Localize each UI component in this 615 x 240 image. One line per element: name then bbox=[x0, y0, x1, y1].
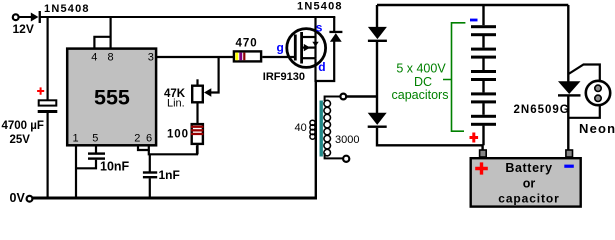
battery B1 body bbox=[471, 158, 581, 206]
svg-text:4700 µF: 4700 µF bbox=[2, 120, 44, 132]
wire pin 6 junction down and right to R3 bottom bbox=[149, 146, 197, 155]
bracket for capacitor bank (green) bbox=[443, 23, 465, 131]
svg-text:or: or bbox=[523, 177, 536, 191]
resistor R1 band yellow bbox=[235, 53, 238, 61]
Q1 body arrow right bbox=[304, 44, 310, 51]
diode D4 triangle bbox=[368, 113, 387, 125]
svg-text:g: g bbox=[277, 41, 284, 55]
wire Q1 source up to rail bbox=[314, 17, 316, 37]
neon electrode bottom bbox=[595, 95, 601, 101]
resistor R1 band violet bbox=[239, 53, 242, 61]
diode D3 triangle bbox=[368, 27, 387, 39]
svg-text:1N5408: 1N5408 bbox=[297, 1, 343, 13]
wire drain junction down to transformer primary bbox=[315, 81, 317, 198]
wire C6-C7 bbox=[482, 81, 484, 93]
svg-text:2: 2 bbox=[134, 132, 140, 144]
capacitor C8 plates bbox=[471, 115, 496, 118]
svg-text:2N6509G: 2N6509G bbox=[514, 104, 570, 116]
Q1 source stub bbox=[302, 36, 316, 38]
Q1 gate bar bbox=[294, 35, 297, 61]
wire bracket pins 4-8 bbox=[94, 37, 110, 48]
neon lamp circle bbox=[586, 81, 610, 105]
wire 12V terminal to diode D1 bbox=[19, 16, 31, 18]
resistor R2 bands bbox=[191, 126, 203, 128]
svg-text:100: 100 bbox=[167, 129, 189, 141]
svg-text:DC: DC bbox=[414, 75, 432, 89]
label plus (red) capacitor bank bbox=[470, 133, 479, 143]
label minus (blue) capacitor bank bbox=[470, 19, 478, 22]
node 0V terminal bbox=[27, 196, 33, 202]
capacitor C5 plates bbox=[471, 48, 496, 51]
wire junction down to pot wiper bbox=[211, 57, 219, 93]
battery terminal nub left bbox=[480, 150, 487, 157]
wire R2 bottom stub bbox=[196, 144, 198, 154]
wire neon bottom to cathode line bbox=[568, 106, 600, 118]
svg-text:IRF9130: IRF9130 bbox=[263, 71, 305, 83]
pot VR1 top stub bbox=[196, 79, 198, 84]
Q1 down arrow on vertical bbox=[312, 42, 318, 47]
wire C1 to 0V rail bbox=[46, 113, 48, 198]
transistor Q1 IRF9130 circle bbox=[287, 29, 326, 68]
svg-text:Battery: Battery bbox=[505, 161, 552, 175]
wire junction down to C3 bbox=[149, 154, 151, 171]
wire thyristor anode from top rail bbox=[567, 5, 569, 82]
wire HV top rail bbox=[377, 4, 568, 6]
capacitor C2 10nF bbox=[88, 152, 105, 154]
svg-text:8: 8 bbox=[108, 51, 114, 63]
svg-text:1: 1 bbox=[73, 132, 79, 144]
wire rectifier column middle bbox=[376, 42, 378, 114]
diode D2 1N5408 cathode bar bbox=[329, 31, 342, 33]
capacitor bank wire bottom bbox=[482, 126, 484, 146]
node 12V input terminal bbox=[13, 14, 19, 20]
op-amp U1 555 timer body bbox=[67, 49, 156, 146]
capacitor C6 plates bbox=[471, 70, 496, 73]
capacitor C4 plates bbox=[471, 25, 496, 28]
diode D2 1N5408 triangle bbox=[330, 33, 342, 42]
wire branch down to C1 bbox=[46, 17, 48, 100]
wire secondary top to terminal bbox=[325, 97, 340, 102]
resistor R2 100 body bbox=[192, 124, 203, 144]
node secondary top terminal bbox=[340, 94, 346, 100]
transformer T1 secondary coil 3000 turns bbox=[324, 100, 331, 107]
wire terminal to rectifier column bbox=[346, 95, 378, 97]
neon electrode top bbox=[595, 85, 601, 91]
svg-text:12V: 12V bbox=[13, 22, 34, 36]
capacitor bank wire top bbox=[482, 5, 484, 25]
resistor R1 470 body bbox=[234, 51, 261, 61]
svg-text:s: s bbox=[316, 21, 323, 35]
node secondary bottom terminal bbox=[343, 156, 349, 162]
pot VR1 wiper arrow bbox=[204, 88, 211, 96]
Q1 inner vertical bbox=[314, 37, 316, 58]
wire top rail from D1 to top diode D2 bbox=[41, 16, 336, 18]
svg-text:25V: 25V bbox=[10, 134, 31, 146]
svg-text:6: 6 bbox=[146, 132, 152, 144]
capacitor C3 1nF bbox=[143, 171, 157, 173]
diode D3 cathode bar bbox=[368, 40, 387, 42]
label battery minus (blue) bbox=[564, 165, 574, 168]
wire C4-C5 bbox=[482, 36, 484, 48]
wire gate diagonal to neon bbox=[569, 65, 600, 81]
diode D4 cathode bar bbox=[368, 126, 387, 128]
svg-text:1N5408: 1N5408 bbox=[44, 3, 90, 15]
wire rectifier column top bbox=[376, 5, 378, 28]
Q1 middle stub bbox=[302, 46, 316, 48]
svg-text:d: d bbox=[318, 60, 325, 74]
wire pins 2-6 bracket below box bbox=[138, 146, 149, 150]
svg-text:0V: 0V bbox=[10, 191, 26, 205]
Q1 drain stub bbox=[302, 57, 316, 59]
svg-text:Lin.: Lin. bbox=[167, 98, 185, 110]
wire D2 anode down to drain junction bbox=[316, 42, 335, 82]
wire Q2 cathode down to battery bbox=[567, 97, 569, 152]
svg-text:3: 3 bbox=[148, 51, 154, 63]
thyristor Q2 cathode bar bbox=[558, 94, 581, 96]
resistor R1 band brown bbox=[243, 53, 245, 61]
wire C2 bottom to pin1 line bbox=[76, 160, 96, 169]
svg-text:1nF: 1nF bbox=[159, 168, 180, 182]
diode D1 1N5408 bbox=[31, 13, 39, 22]
wire pin 1 to 0V rail bbox=[75, 146, 77, 198]
svg-text:40: 40 bbox=[295, 122, 307, 134]
capacitor C1 4700uF top plate bbox=[39, 100, 57, 105]
svg-text:Neon: Neon bbox=[579, 121, 615, 136]
capacitor C7 plates bbox=[471, 92, 496, 95]
svg-text:10nF: 10nF bbox=[100, 160, 130, 174]
thyristor Q2 2N6509G triangle bbox=[558, 81, 581, 94]
wire C7-C8 bbox=[482, 103, 484, 115]
wire pot to R2 bbox=[196, 104, 198, 124]
svg-text:capacitor: capacitor bbox=[498, 192, 559, 206]
svg-text:555: 555 bbox=[94, 86, 130, 110]
wire pin8 drop from top rail bbox=[109, 17, 111, 48]
wire Q1 drain down to junction bbox=[314, 58, 316, 82]
wire secondary bottom to terminal bbox=[325, 153, 343, 158]
svg-text:5 x 400V: 5 x 400V bbox=[396, 62, 446, 76]
svg-text:470: 470 bbox=[236, 37, 258, 49]
transformer T1 primary coil 40 turns bbox=[310, 120, 315, 125]
wire rail corner down to D2 bbox=[333, 17, 335, 31]
wire pin 5 down to C2 bbox=[95, 146, 97, 153]
battery terminal nub right bbox=[566, 150, 573, 157]
Q1 channel bar bbox=[300, 32, 303, 64]
wire C3 to 0V rail bbox=[149, 178, 151, 198]
wire pin 3 output to R1 bbox=[157, 56, 233, 58]
potentiometer VR1 47K body bbox=[192, 86, 203, 103]
wire C5-C6 bbox=[482, 58, 484, 70]
svg-text:5: 5 bbox=[92, 132, 98, 144]
wire rectifier column bottom + HV bottom rail bbox=[377, 128, 483, 151]
capacitor C1 4700uF bottom plate bbox=[38, 110, 58, 113]
wire R1 to gate bbox=[262, 56, 295, 58]
svg-text:capacitors: capacitors bbox=[392, 88, 449, 102]
label battery plus (red) bbox=[475, 162, 488, 174]
capacitor C1 4700uF polarity + bbox=[37, 87, 44, 94]
svg-text:4: 4 bbox=[91, 51, 97, 63]
svg-text:3000: 3000 bbox=[335, 134, 359, 146]
transformer T1 core bbox=[320, 101, 323, 157]
wire 0V rail bbox=[33, 197, 318, 200]
